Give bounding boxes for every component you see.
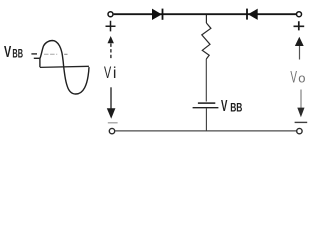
diode D1 cathode bar xyxy=(162,9,164,20)
Vi up arrow dashed tail xyxy=(110,44,112,60)
input waveform label V_BB xyxy=(4,44,23,61)
waveform baseline step segment xyxy=(34,57,40,59)
left input terminal (bottom, open circle) xyxy=(109,128,114,133)
resistor R xyxy=(202,23,211,59)
bottom wire xyxy=(115,130,297,132)
Vi down arrow tail xyxy=(110,87,112,110)
svg-text:V: V xyxy=(104,63,112,82)
minus sign at right bottom xyxy=(295,121,308,123)
diode D2 cathode bar xyxy=(246,9,248,20)
Vo up arrow head xyxy=(295,37,304,46)
waveform step vertical xyxy=(39,58,41,67)
minus sign at left bottom xyxy=(108,122,118,124)
wire: resistor to battery xyxy=(205,59,207,102)
dashed V_BB level line (faint) xyxy=(44,53,57,55)
svg-text:i: i xyxy=(113,65,117,82)
svg-text:V: V xyxy=(221,98,228,115)
right output terminal (bottom, open circle) xyxy=(297,128,302,133)
right output terminal (top, open circle) xyxy=(297,12,302,17)
plus sign at left input xyxy=(106,21,116,32)
top wire xyxy=(114,13,297,15)
diode D1 (anode left, cathode right) xyxy=(152,9,161,19)
battery V_BB long bottom plate xyxy=(193,107,219,109)
Vi down arrow head xyxy=(107,108,116,119)
Vo down arrow head xyxy=(297,108,304,118)
svg-text:V: V xyxy=(290,68,297,87)
svg-text:o: o xyxy=(298,71,305,86)
Vo down arrow tail xyxy=(300,90,302,109)
label Vo xyxy=(290,68,305,87)
leader dash from V_BB label xyxy=(31,53,37,55)
svg-text:BB: BB xyxy=(230,103,242,115)
wire: battery to bottom wire xyxy=(205,108,207,131)
input sine wave xyxy=(40,41,89,95)
battery label V_BB xyxy=(221,98,242,115)
plus sign at right output xyxy=(294,21,305,30)
battery V_BB short top plate xyxy=(198,102,215,104)
label Vi xyxy=(104,63,116,82)
node: top wire to resistor stub xyxy=(205,15,207,23)
left input terminal (top, open circle) xyxy=(108,12,113,17)
svg-text:V: V xyxy=(4,44,11,61)
Vo up arrow tail xyxy=(299,46,301,60)
Vi up arrow head xyxy=(108,36,114,43)
diode D2 (anode right, cathode left) xyxy=(249,9,258,19)
waveform zero axis xyxy=(40,66,89,67)
svg-text:BB: BB xyxy=(12,46,23,60)
